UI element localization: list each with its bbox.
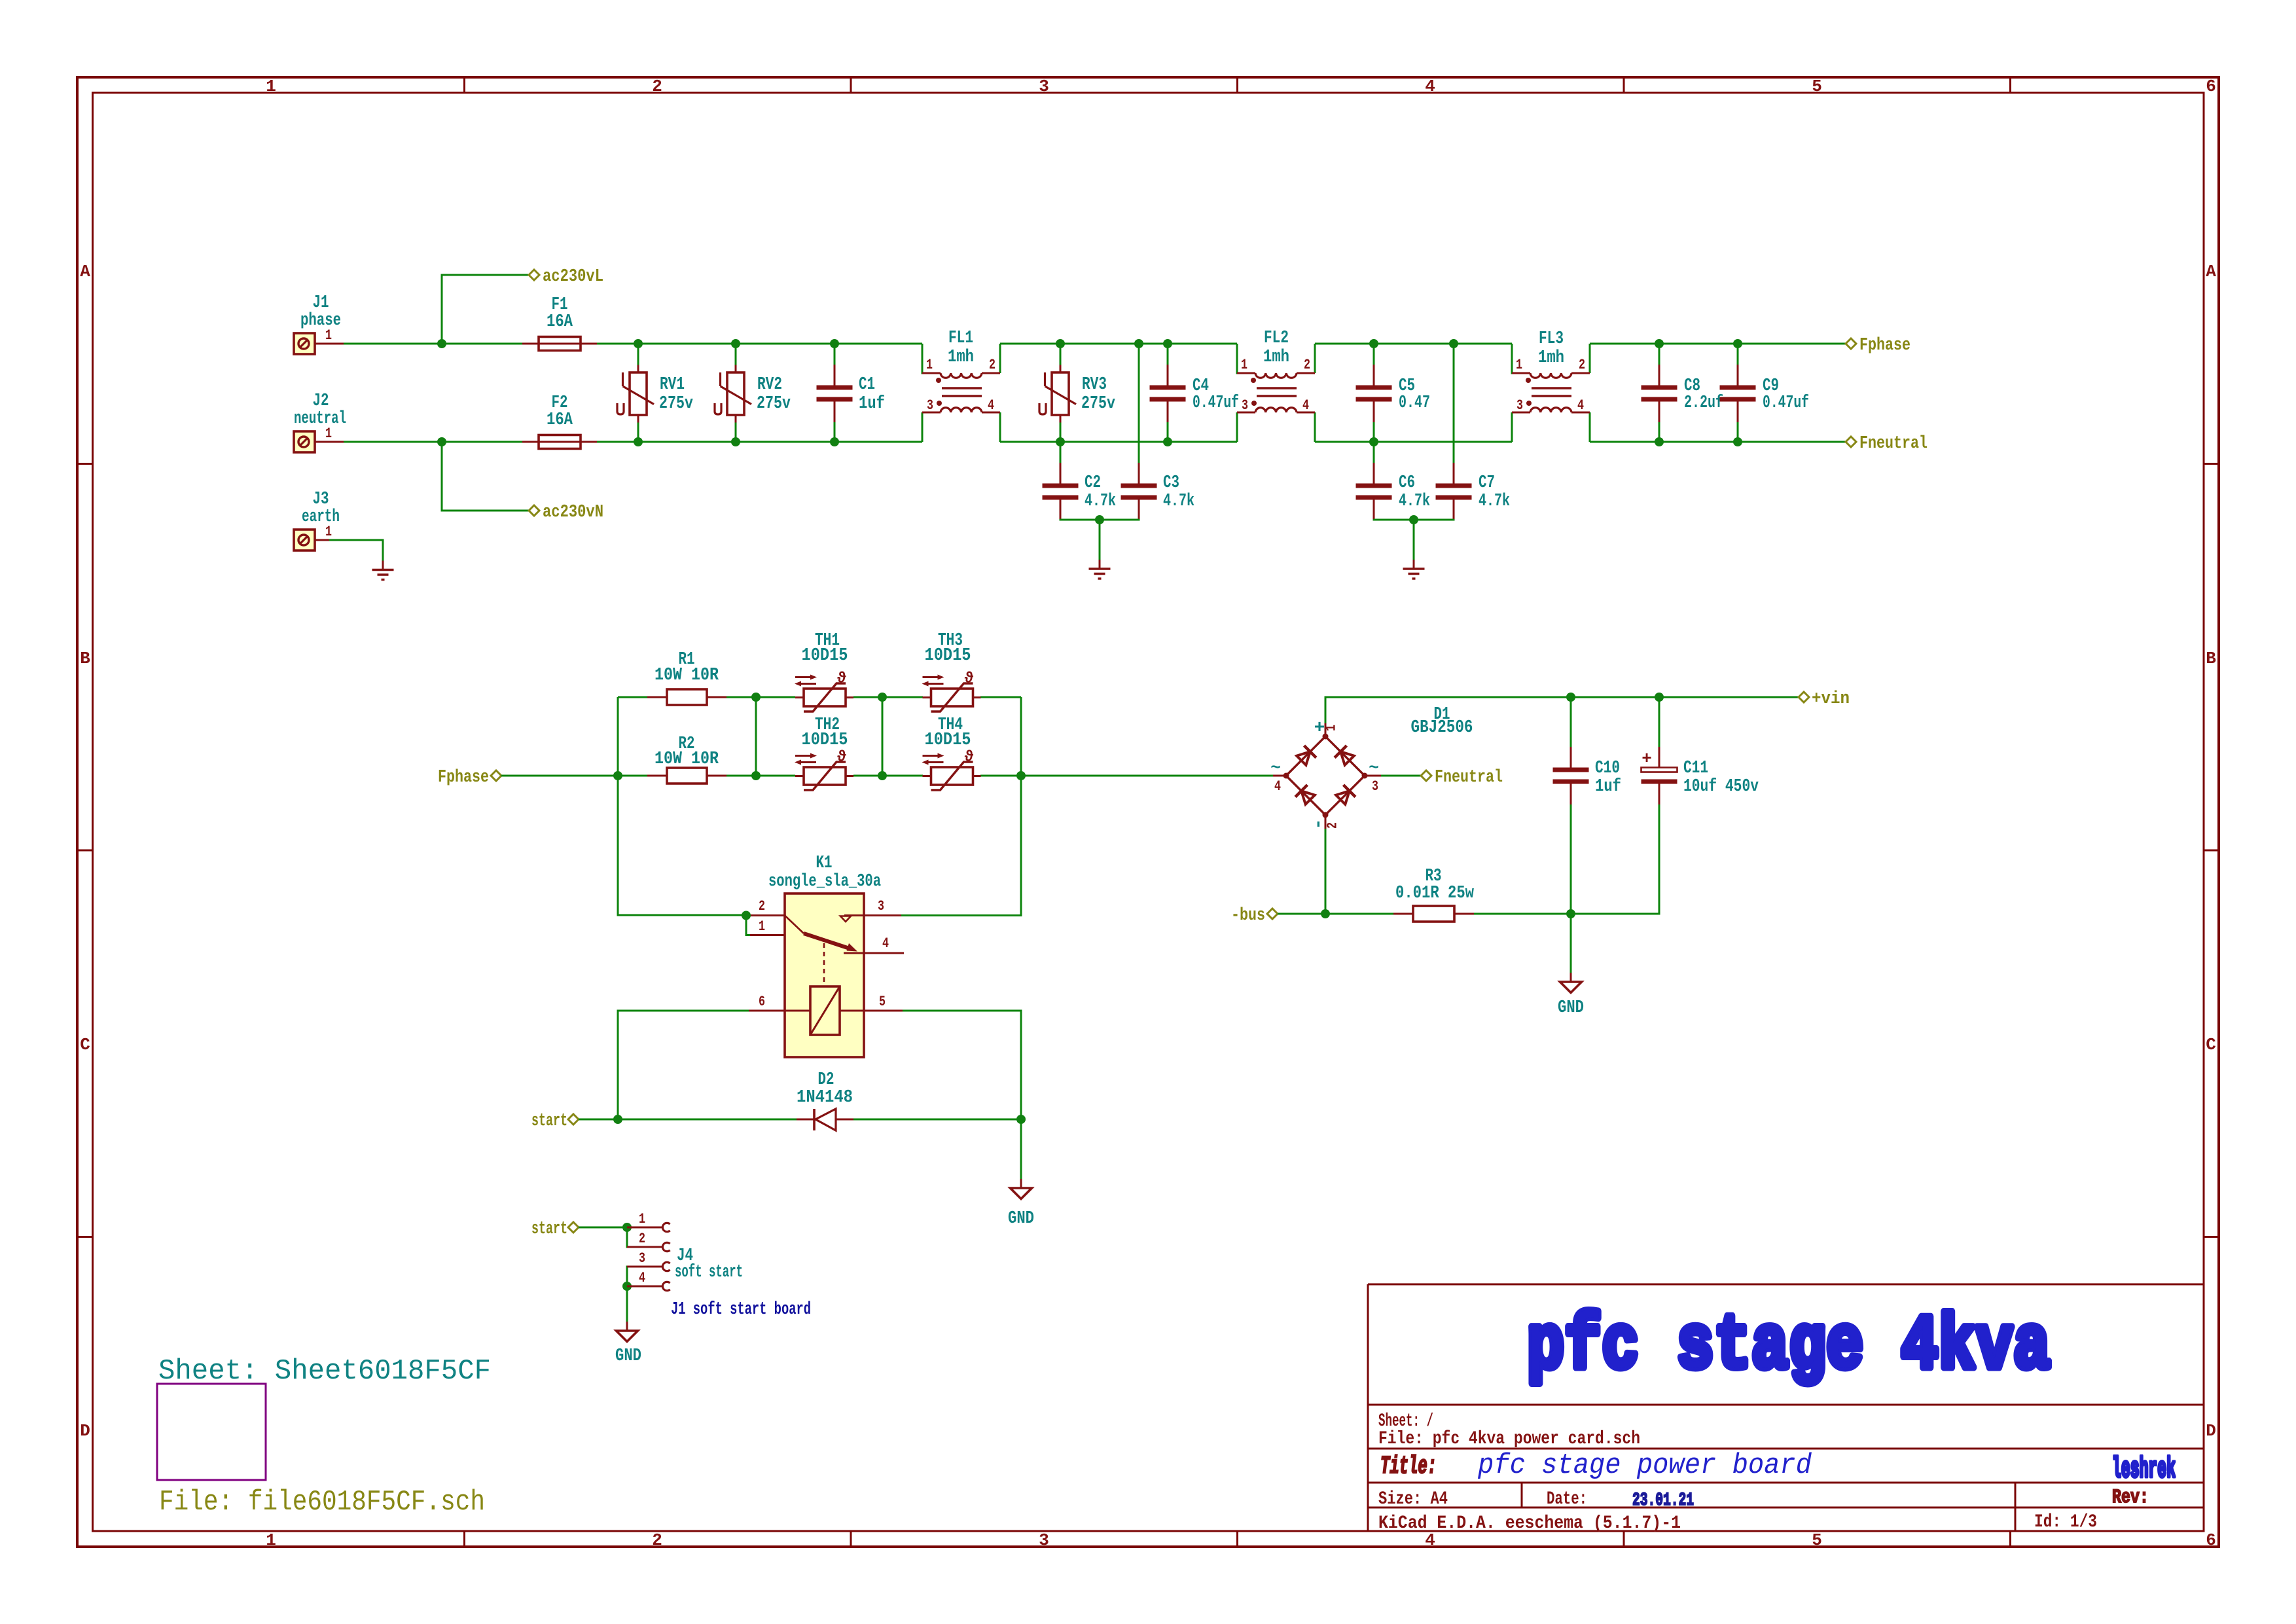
ground earth J3 <box>372 561 394 580</box>
wire C2 vertical below neutral <box>1060 442 1062 476</box>
node junction J4 pin4 <box>622 1282 632 1291</box>
capacitor C9 <box>1720 365 1810 422</box>
node junction rail bottom right <box>1016 771 1026 780</box>
svg-text:Date:: Date: <box>1547 1489 1587 1509</box>
svg-text:J2: J2 <box>313 391 329 411</box>
wire Fphase to network <box>501 775 618 777</box>
hier label start lower <box>531 1219 579 1239</box>
capacitor C7 <box>1436 463 1511 520</box>
svg-text:5: 5 <box>879 994 886 1010</box>
svg-text:4: 4 <box>1425 77 1435 96</box>
svg-text:2: 2 <box>759 898 765 914</box>
wire bridge right to Fneutral <box>1381 775 1421 777</box>
wire neutral rail <box>344 441 524 443</box>
svg-text:Id: 1/3: Id: 1/3 <box>2034 1512 2097 1532</box>
svg-text:10D15: 10D15 <box>802 731 848 750</box>
svg-text:+: + <box>1641 749 1652 768</box>
node junction J4 pin1 <box>622 1223 632 1232</box>
svg-text:275v: 275v <box>1081 394 1115 414</box>
svg-text:C: C <box>2206 1035 2216 1055</box>
svg-text:1: 1 <box>325 524 332 540</box>
svg-text:6: 6 <box>2206 77 2216 96</box>
wire relay pin6 to start <box>618 1011 749 1119</box>
svg-text:GND: GND <box>1558 998 1584 1018</box>
diode D2 <box>797 1070 853 1130</box>
svg-text:3: 3 <box>1039 77 1049 96</box>
node junction ground C6C7 <box>1409 515 1418 524</box>
svg-text:start: start <box>531 1111 567 1131</box>
capacitor C1 <box>817 365 886 422</box>
svg-text:1: 1 <box>325 425 332 442</box>
svg-text:FL1: FL1 <box>948 329 973 348</box>
svg-text:3: 3 <box>1039 1530 1049 1550</box>
capacitor C3 <box>1121 463 1195 520</box>
svg-text:neutral: neutral <box>294 409 346 429</box>
wire neutral rail 3 <box>1315 441 1512 443</box>
wire D2 to pin5 vertical <box>853 1119 1021 1121</box>
node junction C3 top <box>1134 339 1143 348</box>
node junction C9 bottom <box>1733 437 1742 446</box>
svg-text:4.7k: 4.7k <box>1399 492 1430 511</box>
svg-text:C10: C10 <box>1595 759 1620 778</box>
filter FL2 <box>1237 329 1315 442</box>
wire phase rail 2 <box>1000 343 1237 345</box>
ground GND main <box>1558 973 1584 1018</box>
wire ac230vL stub <box>442 275 529 344</box>
svg-text:16A: 16A <box>547 312 573 332</box>
svg-text:Fphase: Fphase <box>438 768 489 787</box>
node junction RV3/C2 neutral <box>1056 437 1065 446</box>
svg-text:~: ~ <box>1270 758 1281 778</box>
svg-text:2: 2 <box>1325 822 1341 829</box>
svg-text:ac230vL: ac230vL <box>543 267 603 287</box>
wire C8 vertical <box>1659 344 1660 365</box>
svg-text:4: 4 <box>882 935 889 952</box>
svg-text:0.47uf: 0.47uf <box>1193 393 1239 413</box>
node junction rail bottom 2 <box>878 771 887 780</box>
node junction C8 bottom <box>1655 437 1664 446</box>
svg-text:A: A <box>2206 262 2216 281</box>
svg-text:Fphase: Fphase <box>1859 336 1910 355</box>
svg-text:D: D <box>80 1421 90 1441</box>
svg-text:-bus: -bus <box>1231 906 1265 926</box>
node junction rail top 1 <box>751 693 761 702</box>
filter FL3 <box>1512 329 1590 442</box>
svg-text:phase: phase <box>300 311 341 331</box>
wire C11 top <box>1659 697 1660 755</box>
wire top rail <box>618 696 657 698</box>
node junction relay common <box>742 911 751 920</box>
node junction C8 top <box>1655 339 1664 348</box>
svg-text:Rev:: Rev: <box>2112 1487 2149 1509</box>
hier label Fphase input <box>438 768 501 787</box>
svg-text:pfc stage 4kva: pfc stage 4kva <box>1527 1304 2051 1391</box>
svg-text:6: 6 <box>759 994 765 1010</box>
svg-text:Fneutral: Fneutral <box>1435 768 1503 787</box>
wire C9 vertical <box>1737 344 1739 365</box>
svg-text:0.47: 0.47 <box>1399 393 1430 413</box>
connector J3 <box>294 490 344 550</box>
node junction phase/ac230vL <box>437 339 446 348</box>
wire J3 to earth <box>329 540 383 561</box>
wire neutral rail 4 <box>1590 441 1846 443</box>
svg-text:16A: 16A <box>547 410 573 430</box>
thermistor TH4 <box>922 715 981 790</box>
svg-text:GND: GND <box>615 1346 641 1366</box>
svg-text:1: 1 <box>639 1211 645 1227</box>
node junction C4 top <box>1163 339 1172 348</box>
svg-text:FL2: FL2 <box>1264 329 1289 348</box>
wire C6 below neutral <box>1373 442 1375 476</box>
ground GND J4 <box>615 1322 641 1366</box>
wire to GND below D2 <box>1020 1119 1022 1179</box>
svg-text:KiCad E.D.A. eeschema (5.1.7): KiCad E.D.A. eeschema (5.1.7)-1 <box>1378 1513 1681 1534</box>
wire RV1 vertical <box>637 344 639 365</box>
wire phase rail <box>344 343 524 345</box>
wire ac230vN stub <box>442 442 529 511</box>
hier label ac230vN <box>529 503 603 522</box>
svg-text:J1: J1 <box>313 293 329 313</box>
wire right vertical <box>901 697 1021 916</box>
capacitor C11 <box>1641 747 1759 804</box>
wire C6 C7 to ground <box>1374 519 1454 520</box>
wire J4 pin3 to pin4 <box>627 1267 630 1286</box>
svg-text:2: 2 <box>652 77 662 96</box>
wire J4 pin4 to GND <box>626 1286 628 1322</box>
node junction C11 top <box>1655 693 1664 702</box>
connector J2 <box>294 391 346 452</box>
svg-text:RV2: RV2 <box>757 375 782 395</box>
svg-text:10D15: 10D15 <box>925 646 971 666</box>
capacitor C5 <box>1356 365 1431 422</box>
node junction RV1 bottom <box>634 437 643 446</box>
wire J4 pin1 to pin2 <box>627 1227 630 1247</box>
connector J1 <box>294 293 344 354</box>
svg-text:C3: C3 <box>1163 473 1179 493</box>
resistor R2 <box>647 734 726 784</box>
svg-text:J1 soft start board: J1 soft start board <box>671 1300 811 1320</box>
hier label Fphase right <box>1846 336 1910 355</box>
svg-text:1N4148: 1N4148 <box>797 1088 853 1108</box>
node junction C7 top <box>1449 339 1458 348</box>
wire to GND below C10 <box>1570 914 1572 973</box>
wire bridge top to +vin rail <box>1325 697 1799 723</box>
svg-text:2: 2 <box>652 1530 662 1550</box>
svg-text:File: pfc 4kva power card.sch: File: pfc 4kva power card.sch <box>1378 1429 1640 1449</box>
svg-text:pfc stage power board: pfc stage power board <box>1477 1449 1812 1482</box>
svg-text:3: 3 <box>639 1250 645 1267</box>
hier label -bus <box>1231 906 1278 926</box>
svg-text:1mh: 1mh <box>1263 348 1289 367</box>
wire RV2 vertical <box>735 344 737 365</box>
svg-text:1uf: 1uf <box>1595 777 1621 797</box>
wire C5 vertical <box>1373 344 1375 365</box>
node junction ground C2C3 <box>1095 515 1104 524</box>
svg-text:4.7k: 4.7k <box>1479 492 1510 511</box>
svg-text:Size: A4: Size: A4 <box>1378 1489 1448 1509</box>
svg-text:A: A <box>80 262 90 281</box>
node junction RV3 top <box>1056 339 1065 348</box>
svg-text:Fneutral: Fneutral <box>1859 434 1928 454</box>
svg-text:5: 5 <box>1812 77 1822 96</box>
resistor R3 <box>1393 867 1475 922</box>
varistor RV2 <box>715 365 791 423</box>
varistor RV3 <box>1039 365 1115 423</box>
node junction -bus C10 <box>1566 909 1575 918</box>
node junction RV2 top <box>731 339 740 348</box>
svg-text:5: 5 <box>1812 1530 1822 1550</box>
svg-text:23.01.21: 23.01.21 <box>1632 1490 1694 1511</box>
svg-text:275v: 275v <box>659 394 693 414</box>
svg-text:K1: K1 <box>816 854 833 873</box>
relay K1 <box>746 854 904 1057</box>
svg-text:1mh: 1mh <box>1538 348 1564 368</box>
fuse F1 <box>522 295 597 351</box>
connector J4 <box>627 1211 743 1291</box>
svg-text:4.7k: 4.7k <box>1163 492 1194 511</box>
svg-text:10uf 450v: 10uf 450v <box>1683 777 1759 797</box>
node junction C1 top <box>830 339 839 348</box>
ground earth C6C7 <box>1403 560 1425 579</box>
ground GND D2 <box>1008 1179 1034 1229</box>
fuse F2 <box>522 393 597 449</box>
thermistor TH1 <box>795 631 853 712</box>
svg-text:C1: C1 <box>859 375 875 395</box>
wire left vertical <box>618 697 746 915</box>
svg-text:J3: J3 <box>313 490 329 509</box>
hier label Fneutral mid <box>1421 768 1503 787</box>
svg-text:ac230vN: ac230vN <box>543 503 603 522</box>
svg-text:leshrek: leshrek <box>2112 1453 2176 1486</box>
wire C7 long vertical <box>1453 344 1455 476</box>
node junction RV1 top <box>634 339 643 348</box>
varistor RV1 <box>617 365 693 423</box>
svg-text:RV3: RV3 <box>1082 375 1107 395</box>
svg-text:FL3: FL3 <box>1539 329 1564 349</box>
wire mid vertical 2 <box>882 697 884 776</box>
svg-text:soft start: soft start <box>675 1263 743 1282</box>
node junction bridge minus <box>1321 909 1330 918</box>
wire C10 bottom <box>1570 804 1572 914</box>
node junction rail bottom left <box>613 771 622 780</box>
thermistor TH3 <box>922 631 981 712</box>
wire start to D2 <box>579 1119 797 1121</box>
wire C4 vertical <box>1167 344 1169 365</box>
svg-text:6: 6 <box>2206 1530 2216 1550</box>
svg-text:4: 4 <box>1274 778 1281 795</box>
node junction C5 top <box>1369 339 1378 348</box>
svg-text:C11: C11 <box>1683 759 1708 778</box>
hier label start upper <box>531 1111 579 1131</box>
hier label ac230vL <box>529 267 603 287</box>
thermistor TH2 <box>795 715 853 790</box>
svg-text:+vin: +vin <box>1812 689 1850 709</box>
node junction rail top 2 <box>878 693 887 702</box>
svg-text:1mh: 1mh <box>948 348 974 367</box>
svg-text:0.47uf: 0.47uf <box>1763 393 1809 413</box>
sheet symbol rectangle <box>157 1384 266 1480</box>
wire RV3 vertical <box>1060 344 1062 365</box>
wire start to J4 pin1 <box>579 1227 627 1229</box>
svg-text:0.01R 25w: 0.01R 25w <box>1395 884 1475 903</box>
node junction neutral/ac230vN <box>437 437 446 446</box>
wire C10 top <box>1570 697 1572 755</box>
node junction C4 bottom <box>1163 437 1172 446</box>
node junction start <box>613 1115 622 1124</box>
svg-text:songle_sla_30a: songle_sla_30a <box>768 872 881 892</box>
wire neutral rail 2 <box>1000 441 1237 443</box>
svg-text:C7: C7 <box>1479 473 1495 493</box>
node junction C5/C6 neutral <box>1369 437 1378 446</box>
svg-text:3: 3 <box>878 898 884 914</box>
svg-text:earth: earth <box>302 507 340 527</box>
svg-text:3: 3 <box>1372 778 1378 795</box>
svg-text:10W 10R: 10W 10R <box>655 666 719 685</box>
svg-text:4: 4 <box>639 1270 645 1286</box>
svg-text:B: B <box>2206 649 2216 668</box>
node junction rail bottom 1 <box>751 771 761 780</box>
svg-text:C: C <box>80 1035 90 1055</box>
node junction C10 top <box>1566 693 1575 702</box>
wire C3 long vertical <box>1138 344 1140 476</box>
capacitor C8 <box>1641 365 1724 422</box>
svg-text:File: file6018F5CF.sch: File: file6018F5CF.sch <box>159 1486 485 1519</box>
svg-text:GND: GND <box>1008 1209 1034 1229</box>
wire ground drop 2 <box>1413 520 1415 562</box>
wire ground drop <box>1099 520 1101 562</box>
svg-text:1: 1 <box>266 77 276 96</box>
hier label Fneutral right <box>1846 434 1928 454</box>
wire mid vertical 1 <box>755 697 757 776</box>
svg-text:start: start <box>531 1219 567 1239</box>
wire relay pin5 to vertical <box>903 1011 1021 1119</box>
svg-text:275v: 275v <box>757 394 791 414</box>
capacitor C2 <box>1043 463 1117 520</box>
svg-text:2: 2 <box>639 1231 645 1247</box>
svg-text:1: 1 <box>1323 725 1340 731</box>
svg-text:1: 1 <box>266 1530 276 1550</box>
capacitor C10 <box>1553 747 1622 804</box>
svg-text:C2: C2 <box>1085 473 1101 493</box>
filter FL1 <box>922 329 1000 442</box>
node junction RV2 bottom <box>731 437 740 446</box>
svg-text:1uf: 1uf <box>859 394 885 414</box>
svg-text:D: D <box>2206 1421 2216 1441</box>
wire bottom rail <box>618 775 657 777</box>
wire C2 C3 to ground <box>1060 519 1139 520</box>
wire bridge bottom <box>1325 829 1327 914</box>
svg-text:C6: C6 <box>1399 473 1415 493</box>
node junction C1 bottom <box>830 437 839 446</box>
ground earth C2C3 <box>1089 560 1111 579</box>
svg-text:RV1: RV1 <box>660 375 685 395</box>
svg-text:B: B <box>80 649 90 668</box>
resistor R1 <box>647 650 726 705</box>
svg-text:~: ~ <box>1369 758 1379 778</box>
svg-text:10D15: 10D15 <box>802 646 848 666</box>
capacitor C6 <box>1356 463 1431 520</box>
wire phase rail 3 <box>1315 343 1512 345</box>
svg-text:GBJ2506: GBJ2506 <box>1411 718 1473 738</box>
svg-text:1: 1 <box>759 918 765 935</box>
svg-text:Title:: Title: <box>1380 1453 1437 1481</box>
wire -bus to R3 <box>1278 913 1393 915</box>
svg-text:D2: D2 <box>818 1070 834 1090</box>
wire R3 to C10 junction <box>1474 913 1571 915</box>
svg-text:10D15: 10D15 <box>925 731 971 750</box>
diode bridge D1 <box>1270 705 1473 829</box>
svg-text:2.2uf: 2.2uf <box>1684 393 1723 413</box>
svg-text:10W 10R: 10W 10R <box>655 749 719 769</box>
node junction C9 top <box>1733 339 1742 348</box>
capacitor C4 <box>1150 365 1240 422</box>
svg-text:1: 1 <box>325 327 332 344</box>
node junction D2 right <box>1016 1115 1026 1124</box>
hier label +vin <box>1799 689 1850 709</box>
svg-text:4.7k: 4.7k <box>1085 492 1116 511</box>
wire C11 bottom <box>1571 804 1659 914</box>
wire phase rail 4 <box>1590 343 1846 345</box>
wire C1 vertical <box>834 344 836 365</box>
